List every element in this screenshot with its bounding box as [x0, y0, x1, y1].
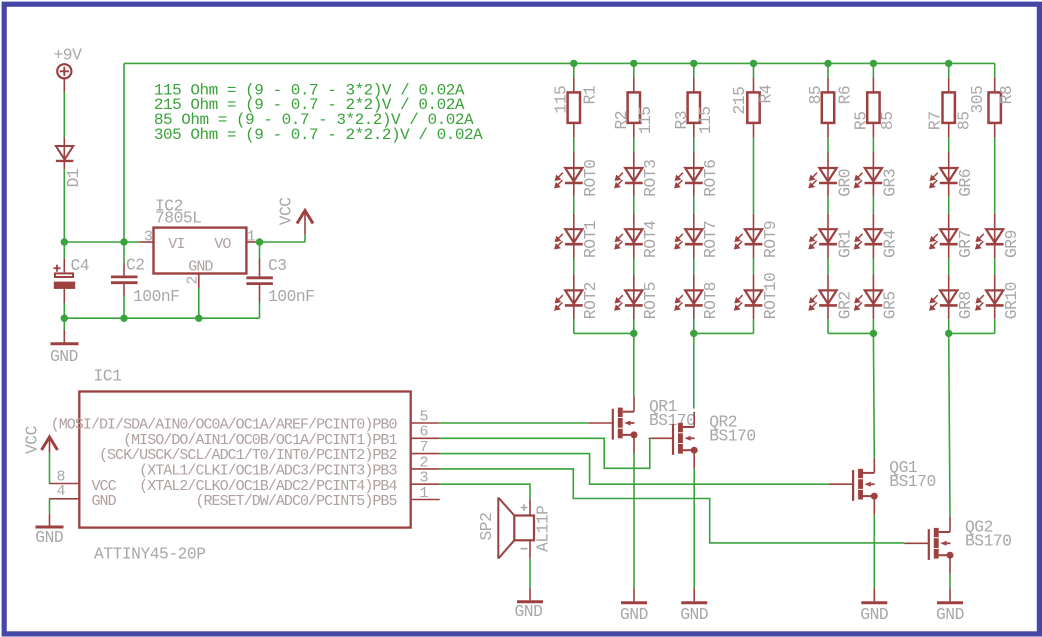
svg-text:115: 115 — [696, 106, 715, 134]
wire c6 r-led1 — [872, 138, 874, 153]
junction rail tap c2 — [630, 60, 637, 67]
svg-text:GR9: GR9 — [1002, 230, 1021, 258]
svg-text:305 Ohm = (9 - 0.7 - 2*2.2)V /: 305 Ohm = (9 - 0.7 - 2*2.2)V / 0.02A — [154, 126, 483, 144]
LED GR4 — [855, 214, 883, 258]
junction led rail c6 — [870, 330, 877, 337]
LED GR8 — [930, 275, 958, 319]
capacitor C2 — [111, 242, 138, 318]
LED GR2 — [809, 275, 837, 319]
svg-text:ROT5: ROT5 — [641, 282, 660, 319]
resistor R1 — [568, 78, 580, 138]
svg-text:VCC: VCC — [277, 197, 296, 226]
LED ROT10 — [735, 275, 763, 319]
svg-text:GR2: GR2 — [835, 291, 854, 319]
wire c3 led2-led3 — [693, 258, 695, 275]
svg-text:1: 1 — [420, 485, 429, 502]
svg-text:VCC: VCC — [22, 425, 41, 454]
wire D1 to node A — [63, 169, 65, 242]
svg-text:GND: GND — [515, 602, 543, 621]
svg-text:4: 4 — [57, 483, 66, 500]
junction rail tap c6 — [870, 60, 877, 67]
svg-text:ROT10: ROT10 — [761, 273, 780, 319]
capacitor C4 — [54, 242, 76, 318]
svg-text:7805L: 7805L — [155, 208, 201, 227]
speaker SP2 — [498, 498, 534, 559]
pin 6 IC1 — [411, 437, 440, 439]
LED GR6 — [930, 153, 958, 197]
wire QR1 source — [633, 454, 635, 589]
pin 3 IC1 — [411, 483, 440, 485]
svg-text:ROT2: ROT2 — [581, 282, 600, 319]
diode D1 — [56, 137, 73, 169]
svg-text:ROT0: ROT0 — [581, 160, 600, 197]
transistor QR2 — [649, 412, 698, 469]
junction IC2 gnd — [195, 315, 202, 322]
wire c7 led1-led2 — [948, 197, 950, 214]
resistor R2 — [628, 78, 640, 138]
LED GR0 — [809, 153, 837, 197]
svg-text:GND: GND — [92, 493, 117, 510]
wire QR2 source — [693, 469, 695, 589]
wire SP2 to gnd — [529, 559, 531, 588]
svg-text:ROT3: ROT3 — [641, 160, 660, 197]
wire c2 led3-bottom — [633, 319, 635, 333]
wire led rail c5-c6 — [828, 332, 873, 334]
svg-text:GND: GND — [35, 528, 63, 547]
wire c2 drain drop — [633, 333, 635, 396]
wire c6 drain drop — [872, 333, 875, 457]
pin 2 IC2 — [198, 274, 200, 288]
svg-text:115: 115 — [551, 86, 570, 114]
wire c8 led2-led3 — [994, 258, 996, 275]
svg-text:ROT6: ROT6 — [701, 160, 720, 197]
svg-text:GR3: GR3 — [881, 169, 900, 197]
wire c8 upper — [994, 138, 996, 214]
wire +9V to D1 — [63, 92, 65, 137]
LED GR3 — [855, 153, 883, 197]
junction rail tap c1 — [570, 60, 577, 67]
wire net PB3-QG2 — [440, 469, 905, 543]
wire c5 led3-bottom — [827, 319, 829, 333]
svg-text:GND: GND — [936, 605, 964, 624]
svg-text:R4: R4 — [756, 85, 775, 104]
transistor QG1 — [829, 458, 878, 515]
LED ROT8 — [675, 275, 703, 319]
svg-text:SP2: SP2 — [477, 513, 496, 541]
wire VCC riser — [304, 235, 306, 242]
wire c6 led1-led2 — [872, 197, 874, 214]
pin 1 IC2 — [246, 241, 256, 243]
svg-text:R3: R3 — [672, 111, 691, 130]
wire led rail c4-c3 — [694, 332, 754, 334]
LED GR1 — [809, 214, 837, 258]
wire c4 led3-bottom — [753, 319, 755, 333]
LED GR10 — [976, 275, 1004, 319]
svg-text:215: 215 — [730, 87, 749, 115]
wire net PB2-QG1 — [440, 454, 829, 485]
LED GR5 — [855, 275, 883, 319]
IC U1 box — [79, 392, 410, 528]
resistor R8 — [989, 78, 1001, 138]
svg-text:85: 85 — [878, 112, 897, 131]
wire net PB1-QR2 — [440, 438, 650, 468]
svg-text:1: 1 — [247, 229, 256, 246]
LED ROT7 — [675, 214, 703, 258]
pin 5 IC1 — [411, 422, 440, 424]
LED GR7 — [930, 214, 958, 258]
capacitor C3 — [246, 242, 273, 318]
LED ROT3 — [615, 153, 643, 197]
svg-text:R2: R2 — [612, 111, 631, 130]
wire c7 r-led1 — [948, 138, 950, 153]
wire GND pin4 — [49, 499, 51, 515]
svg-text:GR10: GR10 — [1002, 282, 1021, 319]
junction C2 gnd — [120, 315, 127, 322]
svg-text:GR5: GR5 — [881, 291, 900, 319]
wire c2 led2-led3 — [633, 258, 635, 275]
wire c4 led2-led3 — [753, 258, 755, 275]
wire rail drop c8 — [994, 63, 996, 77]
wire rail drop c7 — [948, 63, 950, 77]
wire net PB4-SP2 — [440, 484, 530, 499]
ground GND (IC1) — [36, 514, 64, 527]
wire c3 led1-led2 — [693, 197, 695, 214]
svg-text:BS170: BS170 — [889, 472, 935, 491]
svg-text:C2: C2 — [126, 255, 145, 274]
wire c7 led2-led3 — [948, 258, 950, 275]
svg-text:GND: GND — [860, 605, 888, 624]
resistor R4 — [747, 78, 759, 138]
wire c1 led1-led2 — [573, 197, 575, 214]
pin 4 IC1 — [49, 498, 79, 500]
svg-text:BS170: BS170 — [965, 531, 1011, 550]
wire rail drop c2 — [633, 63, 635, 77]
wire c5 led2-led3 — [827, 258, 829, 275]
LED ROT9 — [735, 214, 763, 258]
svg-text:IC1: IC1 — [94, 367, 122, 386]
svg-text:VI: VI — [168, 236, 184, 253]
wire c3 r-led1 — [693, 138, 695, 153]
wire c3 led3-bottom — [693, 319, 695, 333]
supply VCC (IC2) — [297, 211, 313, 235]
wire c5 r-led1 — [827, 138, 829, 153]
pin 3 IC2 — [139, 241, 153, 243]
svg-text:GR8: GR8 — [956, 291, 975, 319]
svg-text:2: 2 — [185, 276, 202, 285]
svg-text:BS170: BS170 — [709, 426, 755, 445]
svg-text:GR7: GR7 — [956, 230, 975, 258]
ground GND QG1 — [861, 589, 887, 603]
LED ROT0 — [555, 153, 583, 197]
junction rail tap — [120, 238, 127, 245]
svg-text:R5: R5 — [851, 112, 870, 131]
svg-text:R1: R1 — [581, 86, 600, 105]
resistor R3 — [688, 78, 700, 138]
wire c5 led1-led2 — [827, 197, 829, 214]
LED ROT4 — [615, 214, 643, 258]
LED ROT6 — [675, 153, 703, 197]
svg-text:85: 85 — [806, 86, 825, 105]
ground GND (SP2) — [517, 588, 543, 602]
svg-text:ROT7: ROT7 — [701, 221, 720, 258]
svg-text:GND: GND — [680, 605, 708, 624]
wire c4 upper — [753, 138, 755, 214]
junction C4 gnd — [61, 315, 68, 322]
wire node A row — [64, 241, 139, 243]
svg-text:100nF: 100nF — [133, 287, 179, 306]
transistor QG2 — [904, 517, 953, 574]
wire c1 led2-led3 — [573, 258, 575, 275]
svg-text:R6: R6 — [835, 86, 854, 105]
wire top rail — [124, 62, 995, 64]
wire rail drop c6 — [872, 63, 874, 77]
wire c3 drain drop — [693, 333, 695, 408]
svg-text:GR0: GR0 — [835, 169, 854, 197]
wire QG1 source — [873, 515, 875, 589]
wire gnd rail — [64, 317, 259, 319]
svg-text:ROT9: ROT9 — [761, 221, 780, 258]
svg-text:VO: VO — [214, 236, 231, 253]
LED GR9 — [976, 214, 1004, 258]
ground GND QR1 — [621, 589, 647, 603]
junction rail tap c7 — [945, 60, 952, 67]
resistor R5 — [867, 78, 879, 138]
LED ROT2 — [555, 275, 583, 319]
wire c1 r-led1 — [573, 138, 575, 153]
svg-text:ROT1: ROT1 — [581, 221, 600, 258]
wire rail drop c4 — [753, 63, 755, 77]
wire c7 led3-bottom — [948, 319, 950, 333]
svg-text:(RESET/DW/ADC0/PCINT5)PB5: (RESET/DW/ADC0/PCINT5)PB5 — [195, 493, 397, 510]
resistor R6 — [822, 78, 834, 138]
ground GND QR2 — [681, 589, 707, 603]
junction node A — [61, 238, 68, 245]
pin 2 IC1 — [411, 468, 440, 470]
regulator IC2 box — [154, 228, 247, 274]
wire led rail c8-c7 — [949, 332, 995, 334]
svg-text:C3: C3 — [268, 256, 287, 275]
wire pin2 to gnd rail — [198, 288, 200, 319]
svg-text:GND: GND — [620, 605, 648, 624]
svg-text:ROT8: ROT8 — [701, 282, 720, 319]
supply VCC (IC1) — [42, 437, 58, 453]
svg-text:D1: D1 — [64, 169, 83, 188]
pin 8 IC1 — [49, 483, 79, 485]
wire c1 led3-bottom — [573, 319, 575, 333]
wire c2 led1-led2 — [633, 197, 635, 214]
svg-text:C4: C4 — [71, 256, 90, 275]
wire rail drop c5 — [827, 63, 829, 77]
pin 1 IC1 — [411, 499, 440, 501]
wire c7 drain drop — [949, 333, 950, 516]
junction led rail c7 — [945, 330, 952, 337]
junction rail tap c5 — [824, 60, 831, 67]
svg-text:ROT4: ROT4 — [641, 221, 660, 258]
svg-text:AL11P: AL11P — [534, 506, 553, 552]
ground GND QG2 — [937, 589, 963, 603]
wire rail drop c1 — [573, 63, 575, 77]
junction led rail c3 — [690, 330, 697, 337]
svg-text:305: 305 — [968, 86, 987, 114]
wire QG2 source — [949, 574, 951, 589]
svg-text:GR4: GR4 — [881, 230, 900, 258]
wire c8 led3-bottom — [994, 319, 996, 333]
junction rail tap c3 — [690, 60, 697, 67]
junction led rail c2 — [630, 330, 637, 337]
wire c2 r-led1 — [633, 138, 635, 153]
wire c6 led3-bottom — [872, 319, 874, 333]
wire led rail c1-c2 — [574, 332, 634, 334]
svg-text:3: 3 — [144, 229, 153, 246]
label SP2 plus — [521, 504, 528, 511]
svg-text:GR6: GR6 — [956, 169, 975, 197]
svg-text:GND: GND — [188, 259, 213, 276]
resistor R7 — [943, 78, 955, 138]
svg-text:GR1: GR1 — [835, 230, 854, 258]
LED ROT5 — [615, 275, 643, 319]
svg-text:R8: R8 — [997, 86, 1016, 105]
svg-text:100nF: 100nF — [268, 287, 314, 306]
junction VO node — [256, 238, 263, 245]
transistor QR1 — [588, 397, 637, 454]
wire c6 led2-led3 — [872, 258, 874, 275]
wire rail riser — [123, 63, 125, 242]
svg-text:115: 115 — [636, 106, 655, 134]
pin 7 IC1 — [411, 453, 440, 455]
wire net PB0-QR1 — [440, 422, 589, 424]
wire VCC pin8 — [49, 453, 51, 484]
label SP2 minus — [521, 548, 528, 550]
LED ROT1 — [555, 214, 583, 258]
wire VO node — [257, 241, 306, 243]
svg-text:GND: GND — [50, 347, 78, 366]
ground GND (C4) — [51, 318, 79, 344]
svg-text:+9V: +9V — [54, 45, 83, 64]
junction rail tap c4 — [750, 60, 757, 67]
svg-text:R7: R7 — [926, 112, 945, 131]
wire rail drop c3 — [693, 63, 695, 77]
supply +9V symbol — [57, 64, 71, 92]
svg-text:ATTINY45-20P: ATTINY45-20P — [94, 544, 205, 563]
